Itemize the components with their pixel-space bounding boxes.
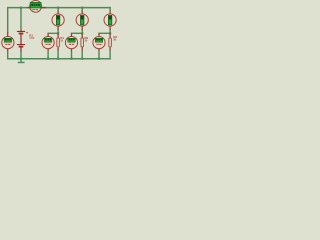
- svg-text:1.5V: 1.5V: [29, 37, 34, 40]
